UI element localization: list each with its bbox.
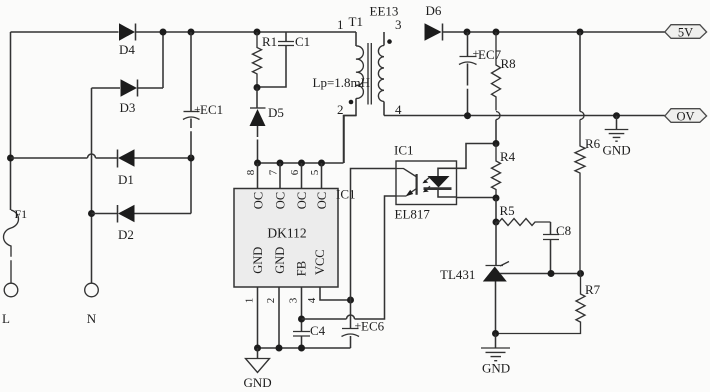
capacitor EC6 (electrolytic)	[350, 300, 352, 328]
svg-text:F1: F1	[15, 207, 28, 221]
transformer T1 core	[368, 43, 371, 105]
wire: pin 3 stub down to C4	[301, 287, 303, 332]
wire: left vertical L line	[10, 32, 12, 210]
node: pin7 dot	[277, 160, 284, 167]
svg-text:VCC: VCC	[313, 249, 327, 275]
capacitor EC7 (electrolytic)	[467, 32, 469, 56]
node: EC1 top dot on rail	[188, 29, 195, 36]
node: R1/C1 bottom dot	[254, 84, 261, 91]
T1 secondary phase dot	[387, 39, 392, 44]
node: FB/C4 dot	[298, 316, 305, 323]
svg-text:R5: R5	[500, 203, 515, 218]
svg-text:1: 1	[337, 17, 344, 32]
wire hop of R8 line over 0V rail	[496, 112, 500, 120]
svg-text:R6: R6	[585, 136, 601, 151]
svg-text:T1: T1	[349, 14, 363, 29]
node: R5 / TL431 cathode dot	[493, 219, 500, 226]
wire: D2 row	[92, 158, 192, 214]
wire: pin 4 stub to VCC node	[320, 287, 351, 300]
svg-text:D5: D5	[268, 105, 284, 120]
svg-text:D3: D3	[120, 100, 136, 115]
terminal flag 0V	[665, 109, 707, 123]
wire: pin 2 stub down to ground bus	[278, 287, 280, 348]
svg-text:2: 2	[337, 102, 344, 117]
svg-text:L: L	[2, 311, 10, 326]
svg-text:D4: D4	[119, 42, 135, 57]
svg-text:4: 4	[306, 297, 318, 303]
svg-text:R1: R1	[262, 34, 277, 49]
node: R8 top dot	[493, 29, 500, 36]
wire: opto LED anode up to R8/R4 node	[457, 144, 497, 169]
svg-text:C4: C4	[310, 323, 326, 338]
TL431 U2	[495, 222, 497, 265]
wire: FB feedback wire with hop to opto emitter	[302, 196, 397, 319]
wire: D1 row with hop over N line	[11, 157, 191, 159]
svg-text:6: 6	[289, 169, 301, 175]
svg-text:3: 3	[395, 17, 402, 32]
svg-text:IC1: IC1	[336, 187, 356, 202]
svg-text:5V: 5V	[678, 26, 693, 40]
svg-text:GND: GND	[603, 143, 631, 158]
capacitor C8	[550, 222, 552, 235]
terminal flag 5V	[665, 25, 707, 39]
wire: 5V rail from D6 to 5V flag	[443, 31, 665, 33]
wire: pin 7 stub	[279, 163, 281, 189]
opto phototransistor	[396, 169, 416, 177]
wire: R4 bottom to R5 node	[495, 198, 497, 222]
svg-text:N: N	[87, 311, 97, 326]
svg-text:OC: OC	[274, 192, 288, 209]
svg-text:EC1: EC1	[200, 102, 223, 117]
resistor R6	[579, 32, 581, 112]
svg-text:3: 3	[288, 297, 300, 303]
ground: secondary GND symbol	[495, 334, 497, 348]
svg-text:IC1: IC1	[394, 143, 414, 158]
terminal N circle	[85, 283, 99, 297]
wire: D3 row	[92, 32, 164, 88]
node: EC7 bottom dot	[464, 112, 471, 119]
wire: 0V rail from T1 pin 4	[384, 115, 665, 117]
svg-text:EL817: EL817	[395, 207, 431, 222]
svg-text:D6: D6	[426, 3, 442, 18]
node: R8/R4/LED-anode dot	[493, 140, 500, 147]
terminal L circle	[4, 283, 18, 297]
node: EC7 top dot	[464, 29, 471, 36]
wire: pin 1 stub down to ground bus	[257, 287, 259, 348]
svg-text:GND: GND	[251, 247, 265, 274]
node: D3/D4 cathode dot on rail	[160, 29, 167, 36]
resistor R1	[253, 32, 262, 88]
node: R4 bottom / LED cathode dot	[493, 195, 500, 202]
svg-text:D1: D1	[118, 172, 134, 187]
node: pin2/bus dot	[276, 345, 283, 352]
resistor R5 (horizontal)	[496, 219, 551, 226]
wire hop over N at (91.5,158)	[88, 154, 96, 158]
node: N-D2 junction dot	[88, 210, 95, 217]
svg-text:C8: C8	[556, 223, 571, 238]
node: D1/D2 anode + EC1 bottom dot	[188, 155, 195, 162]
svg-text:EC7: EC7	[478, 47, 502, 62]
capacitor C1	[257, 32, 286, 87]
svg-text:D2: D2	[118, 227, 134, 242]
svg-text:EC6: EC6	[361, 319, 385, 334]
svg-text:GND: GND	[482, 361, 510, 376]
svg-text:2: 2	[265, 298, 277, 304]
ground: primary GND triangle	[257, 348, 259, 359]
wire: opto collector to VCC	[351, 169, 397, 301]
svg-text:C1: C1	[295, 34, 310, 49]
node: R6 top dot	[577, 29, 584, 36]
node: C8 bottom / ref dot	[548, 270, 555, 277]
svg-text:TL431: TL431	[440, 267, 475, 282]
diode D3 (pointing right)	[121, 79, 138, 96]
resistor R8	[492, 32, 501, 111]
wire: opto LED cathode to R4 bottom node	[457, 197, 497, 200]
svg-text:GND: GND	[273, 247, 287, 274]
diode D1 (pointing left)	[117, 150, 119, 168]
node: 0V/GND dot	[613, 112, 620, 119]
capacitor C4	[293, 332, 310, 337]
svg-text:R7: R7	[585, 282, 601, 297]
optocoupler IC1 EL817 box	[396, 161, 457, 205]
diode D5 (pointing up)	[256, 88, 258, 108]
diode D2 (pointing left)	[117, 205, 119, 223]
node: pin6 dot	[298, 160, 305, 167]
IC U1 DK112 body	[234, 189, 338, 288]
capacitor EC1 (electrolytic)	[190, 32, 192, 111]
node: pin5 dot	[318, 160, 325, 167]
fuse F1	[4, 210, 19, 283]
wire hop over EC6 lead	[347, 315, 355, 319]
diode D4 (pointing right)	[119, 23, 135, 40]
wire: pin 6 stub	[301, 163, 303, 189]
svg-text:R4: R4	[500, 149, 516, 164]
T1 primary phase dot	[349, 100, 354, 105]
svg-text:R8: R8	[501, 56, 516, 71]
diode D6 (pointing right)	[425, 23, 442, 40]
node: C4/bus dot	[298, 345, 305, 352]
svg-text:Lp=1.8mH: Lp=1.8mH	[313, 75, 371, 90]
node: VCC dot	[347, 297, 354, 304]
node: R1 top dot on rail	[254, 29, 261, 36]
svg-text:OV: OV	[676, 110, 694, 124]
svg-text:FB: FB	[295, 261, 309, 276]
wire: bottom ground bus	[258, 347, 351, 349]
svg-text:1: 1	[244, 298, 256, 304]
svg-text:OC: OC	[315, 192, 329, 209]
svg-text:OC: OC	[295, 192, 309, 209]
svg-text:GND: GND	[244, 375, 272, 390]
node: pin8/D5 dot	[254, 160, 261, 167]
transformer T1 secondary winding	[383, 32, 385, 46]
wire: top DC+ rail from left corner to T1 pin1	[11, 31, 357, 33]
wire: pin 8 stub	[257, 163, 259, 189]
svg-text:8: 8	[245, 169, 257, 175]
svg-text:7: 7	[267, 169, 279, 175]
wire: pin 5 stub	[321, 163, 323, 189]
svg-text:DK112: DK112	[267, 226, 306, 241]
wire: N vertical line	[91, 88, 93, 283]
ground: 0V rail GND symbol	[616, 116, 618, 129]
wire: TL431 ref line	[500, 273, 581, 275]
opto light arrows	[425, 177, 430, 181]
node: pin1/bus dot	[254, 345, 261, 352]
transformer T1 primary winding	[355, 32, 357, 46]
node: L-D1 junction dot	[7, 155, 14, 162]
resistor R7	[496, 274, 586, 334]
node: TL431 anode / R7 dot	[492, 330, 499, 337]
wire: pins 8-7-6-5 rail to T1 pin 2	[258, 116, 357, 164]
opto LED (pointing down)	[438, 168, 457, 176]
svg-text:5: 5	[309, 169, 321, 175]
node: R6/R7 divider dot	[577, 270, 584, 277]
resistor R4	[492, 144, 501, 199]
svg-text:OC: OC	[252, 192, 266, 209]
